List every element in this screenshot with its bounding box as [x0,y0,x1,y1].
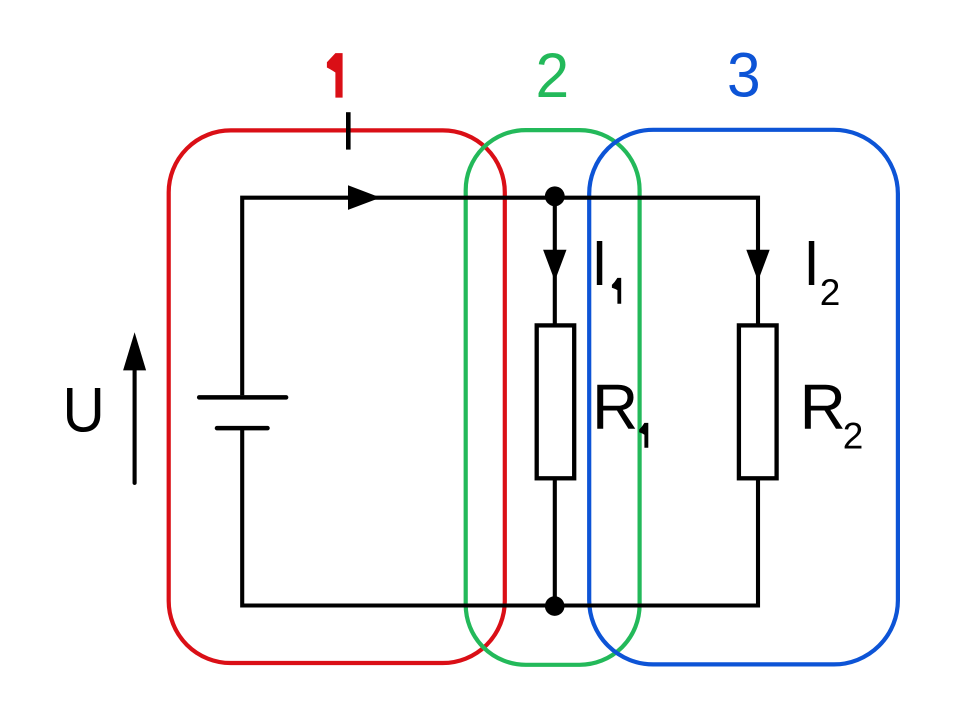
svg-text:2: 2 [535,41,569,111]
svg-text:I: I [803,228,819,300]
svg-text:R: R [800,371,846,443]
svg-text:3: 3 [727,40,761,110]
svg-text:I: I [591,228,607,300]
svg-text:2: 2 [820,272,841,313]
svg-text:R: R [592,371,638,443]
svg-text:2: 2 [843,416,864,457]
svg-text:U: U [63,374,105,444]
